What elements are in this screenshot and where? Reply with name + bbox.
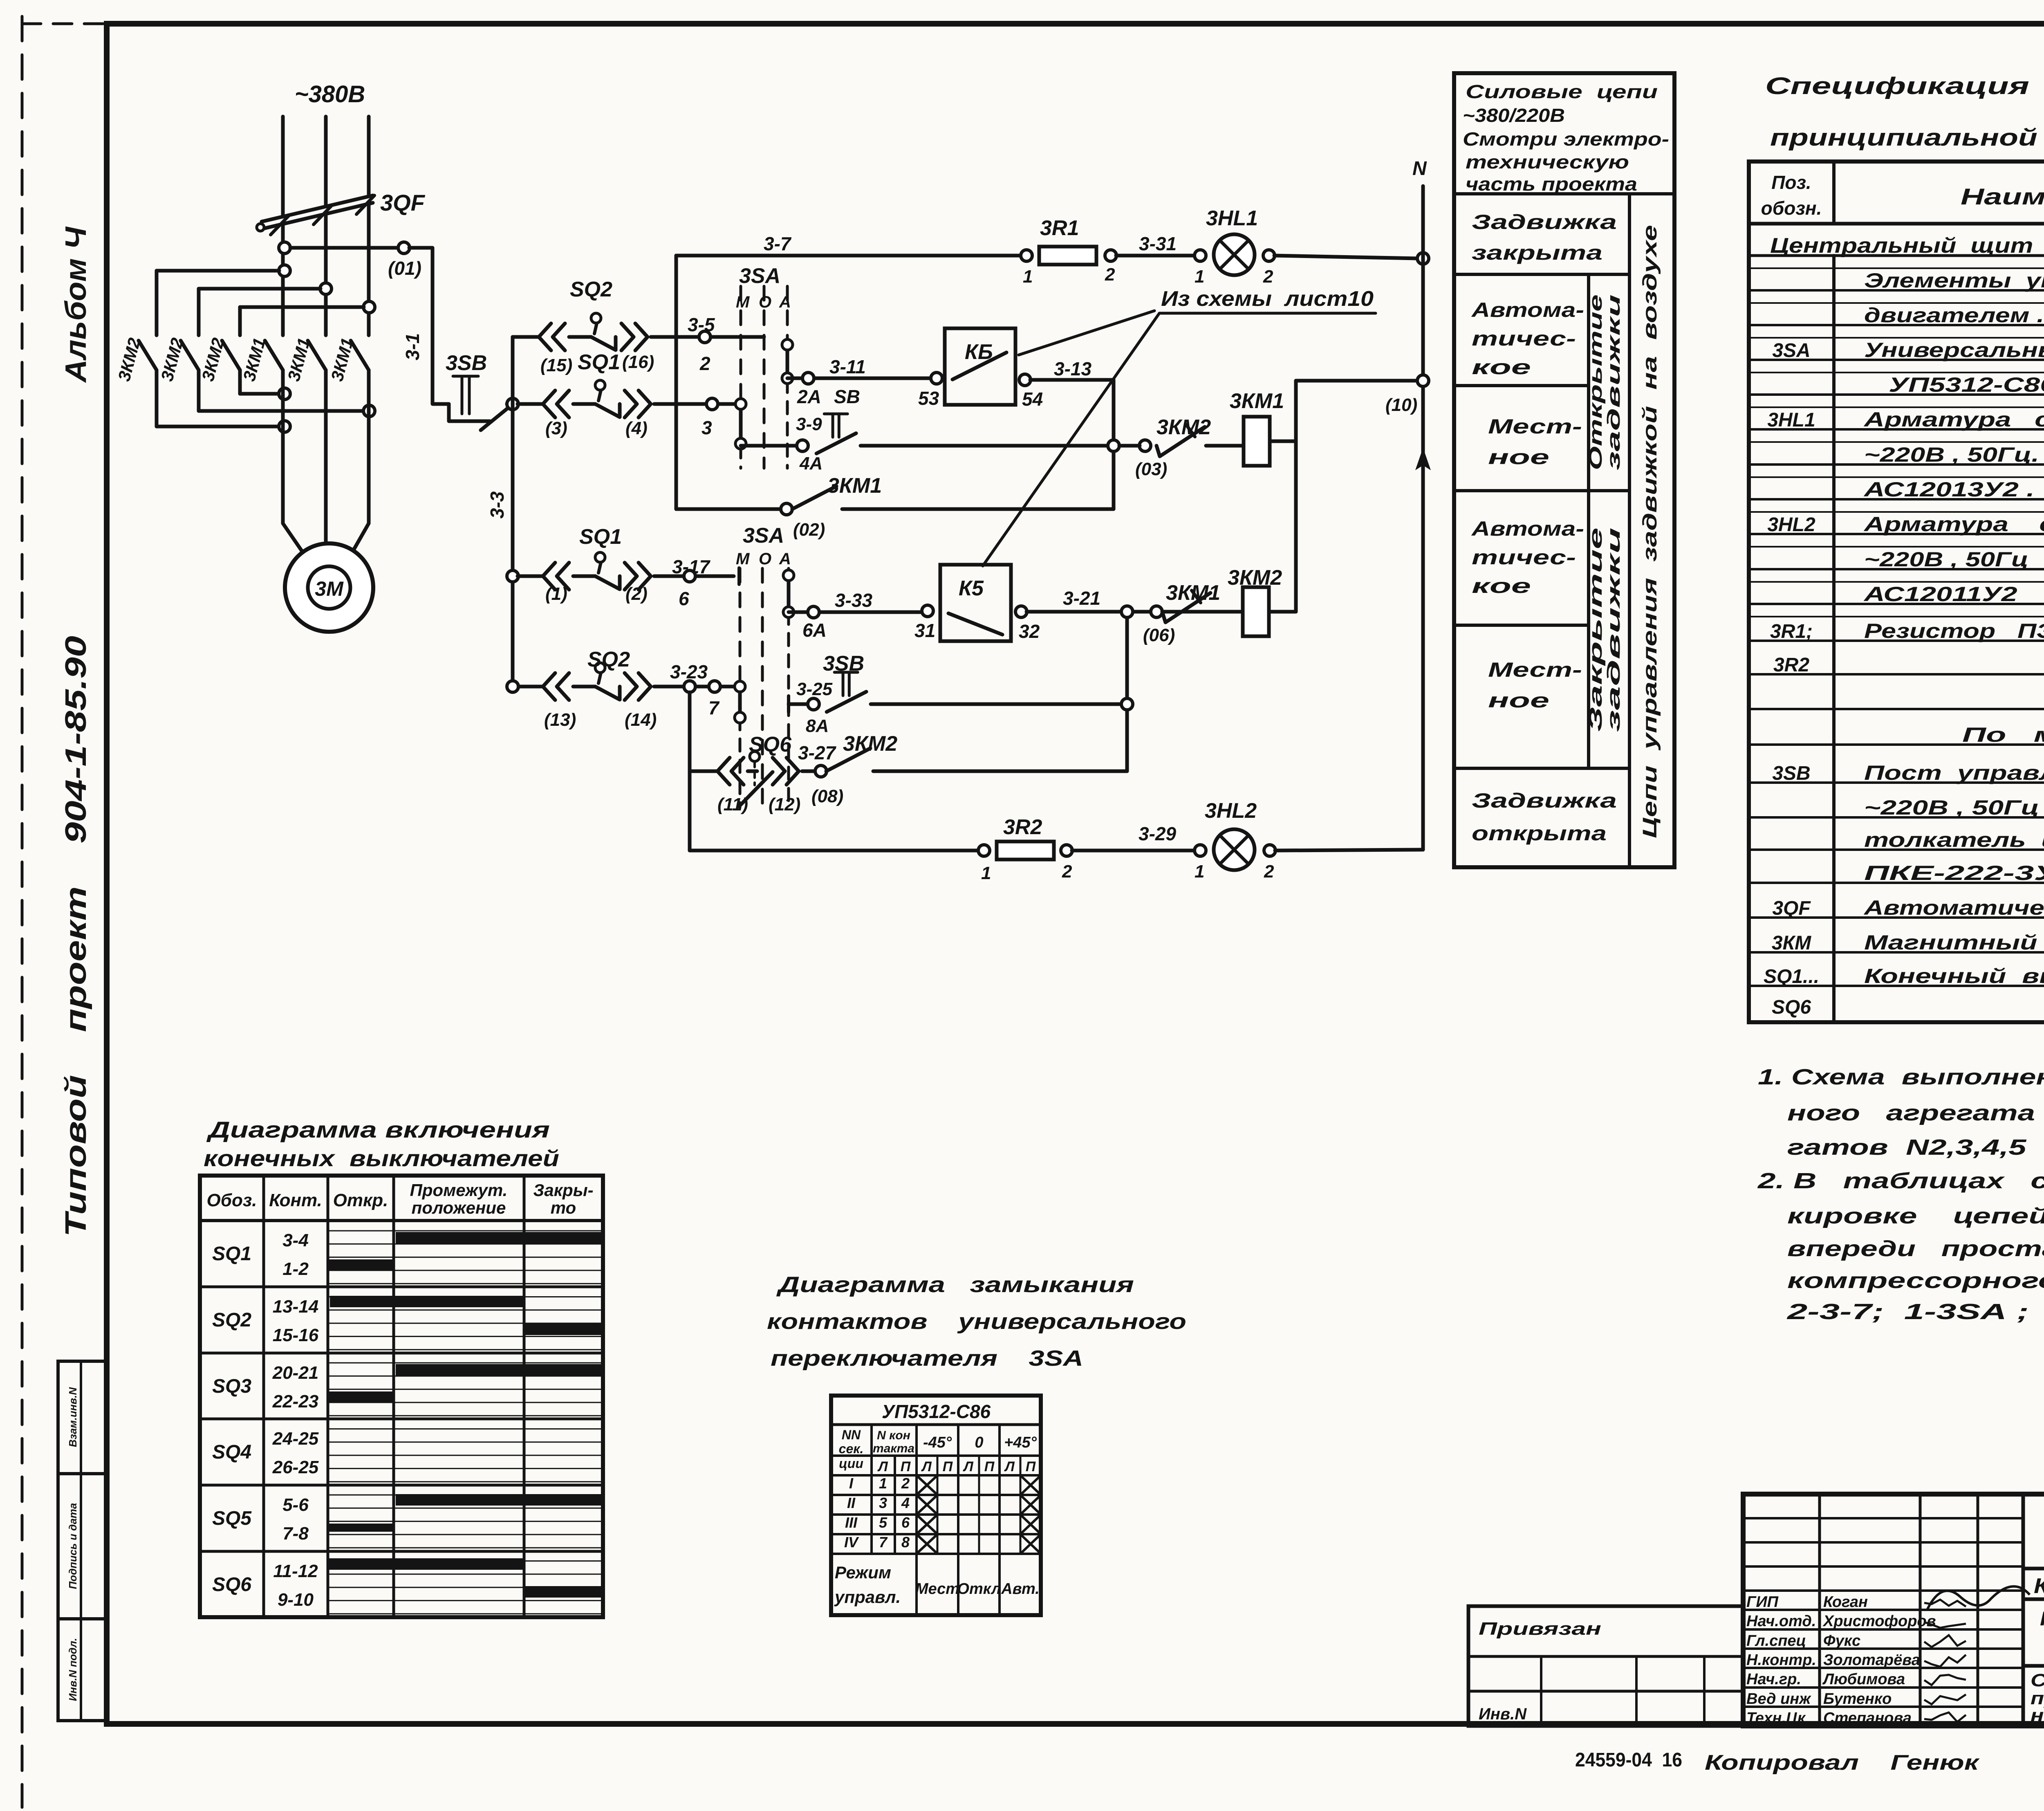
svg-text:3КМ: 3КМ [1772, 932, 1811, 954]
svg-text:часть проекта: часть проекта [1466, 173, 1637, 195]
node 3R1 left [1021, 250, 1032, 261]
node 7 [709, 681, 720, 692]
svg-text:Схема электрическая: Схема электрическая [2031, 1670, 2044, 1690]
svg-text:конечных выключателей: конечных выключателей [204, 1145, 559, 1171]
svg-text:ции: ции [839, 1456, 863, 1471]
svg-text:Закры-: Закры- [533, 1180, 593, 1200]
svg-text:6: 6 [901, 1514, 910, 1531]
legend col line right [1628, 194, 1631, 867]
svg-text:компрессорного агрегата, нап: компрессорного агрегата, например: 1-3-7… [1787, 1268, 2044, 1293]
svg-text:1-2: 1-2 [282, 1259, 309, 1279]
node 01 [398, 242, 410, 254]
svg-text:Подпись и дата: Подпись и дата [67, 1503, 79, 1589]
svg-text:Арматура светосигнальная: Арматура светосигнальная [1863, 513, 2044, 536]
svg-text:ния задвижкой на воздухе.: ния задвижкой на воздухе. [2031, 1706, 2044, 1726]
node 3-9 [797, 440, 808, 451]
pushbutton SB row 3-9 [831, 414, 834, 437]
node 2A [802, 373, 814, 384]
contact 3KM2 aux in SQ6 row [826, 748, 870, 771]
node 32 [1015, 606, 1027, 617]
svg-text:ное: ное [1488, 689, 1549, 712]
svg-text:Вед инж: Вед инж [1746, 1690, 1811, 1708]
svg-text:положение: положение [412, 1198, 506, 1217]
svg-text:3SB: 3SB [1772, 763, 1810, 784]
contactor contact 3KM2-2 [197, 289, 201, 335]
svg-text:3-13: 3-13 [1054, 358, 1091, 379]
wire 02 row right [842, 507, 1114, 511]
svg-text:1: 1 [1023, 267, 1033, 287]
wire KM2-1 bottom to L1 lower [157, 425, 279, 429]
svg-text:такта: такта [873, 1442, 914, 1455]
svg-text:3-31: 3-31 [1139, 233, 1177, 254]
svg-text:IV: IV [844, 1534, 859, 1551]
underline iz shemy [1159, 312, 1376, 315]
arrows left SQ1 3 [543, 390, 555, 417]
svg-text:Элементы управления электро-: Элементы управления электро- [1864, 269, 2044, 292]
arrows left SQ2 15 [539, 323, 551, 350]
svg-text:3М: 3М [315, 577, 344, 600]
svg-text:~380/220В: ~380/220В [1463, 105, 1565, 126]
spec thin double rules [1749, 267, 2044, 269]
svg-text:(03): (03) [1135, 459, 1167, 479]
wire L1 to KM2-1 top [157, 269, 279, 273]
svg-text:Привязан: Привязан [1479, 1619, 1601, 1639]
svg-text:3HL1: 3HL1 [1767, 409, 1815, 431]
svg-text:2: 2 [901, 1475, 910, 1492]
sheet outer edge dashed left [21, 16, 24, 1807]
svg-text:SQ1: SQ1 [578, 350, 620, 374]
node (08) [815, 765, 827, 777]
svg-text:SQ1: SQ1 [579, 525, 622, 549]
3SA contact stub A lower [787, 575, 791, 612]
svg-text:32: 32 [1019, 621, 1040, 642]
svg-text:7: 7 [879, 1534, 888, 1551]
svg-text:переключателя 3SA: переключателя 3SA [771, 1346, 1083, 1371]
svg-text:Смотри электро-: Смотри электро- [1463, 128, 1669, 150]
contactor contact 3KM1-3 [351, 341, 369, 370]
svg-text:двигателем . 3м.: двигателем . 3м. [1864, 304, 2044, 327]
svg-text:обозн.: обозн. [1761, 197, 1822, 219]
wire KM2-3 bottom to L1 [240, 392, 279, 396]
sa X marks [918, 1477, 936, 1493]
selector 3SA lower dashed A [787, 568, 790, 573]
svg-text:М: М [736, 293, 750, 311]
motor feed L2 [324, 370, 328, 543]
N bus [1421, 186, 1425, 850]
svg-text:А: А [779, 550, 791, 568]
wire 3-29 [1072, 849, 1195, 853]
sq diagram table outer [200, 1176, 603, 1617]
arrows right SQ6 12 [773, 758, 785, 785]
svg-text:~220В , 50Гц линза красная: ~220В , 50Гц линза красная [1864, 548, 2044, 571]
svg-text:3R2: 3R2 [1003, 815, 1042, 839]
phase line L1 top [281, 117, 285, 217]
svg-text:3КМ2: 3КМ2 [1156, 415, 1211, 439]
coil 3KM2 [1243, 587, 1269, 636]
contactor contact 3KM2-1 [155, 271, 159, 335]
svg-text:SQ5: SQ5 [212, 1508, 252, 1529]
svg-text:Магнитный пускатель: Магнитный пускатель [1864, 931, 2044, 954]
svg-text:ного агрегата N1, для комп: ного агрегата N1, для компрессорных агре… [1787, 1101, 2044, 1125]
svg-text:П: П [1026, 1459, 1036, 1474]
svg-text:3QF: 3QF [1772, 898, 1811, 919]
staff table columns [1818, 1494, 1821, 1726]
svg-text:3SA: 3SA [743, 524, 784, 548]
svg-text:2. В таблицах соединений: 2. В таблицах соединений щитов в мар- [1757, 1169, 2044, 1193]
svg-text:(2): (2) [625, 584, 648, 604]
svg-text:(02): (02) [793, 520, 825, 540]
svg-text:Нач.гр.: Нач.гр. [1746, 1671, 1801, 1688]
node 2 [699, 331, 710, 343]
svg-text:задвижки: задвижки [1604, 294, 1624, 470]
object cell [2023, 1598, 2044, 1601]
svg-text:1: 1 [981, 863, 991, 883]
legend col line inner [1587, 274, 1590, 768]
node (03) [1139, 440, 1151, 451]
sq diagram row lines [200, 1286, 603, 1288]
3SA contact stub M upper [739, 404, 743, 444]
svg-text:(11): (11) [717, 794, 748, 815]
svg-text:(4): (4) [625, 418, 648, 438]
svg-text:тичес-: тичес- [1472, 546, 1576, 569]
svg-text:SQ6: SQ6 [749, 733, 792, 756]
svg-text:3-25: 3-25 [796, 679, 833, 699]
bus node at 3SB [507, 398, 518, 410]
svg-text:Инв.N подл.: Инв.N подл. [67, 1638, 79, 1701]
node at 1687 [684, 681, 695, 692]
node L1 tap 01 [279, 242, 290, 254]
svg-text:Цепи управления задвижкой н: Цепи управления задвижкой на воздухе [1639, 225, 1661, 838]
svg-text:+45°: +45° [1004, 1434, 1037, 1451]
svg-text:III: III [845, 1514, 858, 1531]
svg-text:ное: ное [1488, 446, 1549, 469]
svg-text:Наименование: Наименование [1961, 184, 2044, 209]
svg-text:6: 6 [679, 588, 689, 609]
svg-text:2: 2 [1263, 267, 1273, 287]
svg-text:31: 31 [914, 620, 935, 641]
svg-text:ПКЕ-222-3У2: ПКЕ-222-3У2 [1864, 862, 2044, 884]
svg-text:Откл: Откл [957, 1580, 1001, 1598]
svg-text:Откр.: Откр. [333, 1190, 388, 1210]
limit switch SQ2 lower [573, 685, 595, 689]
svg-text:3КМ1: 3КМ1 [1230, 389, 1284, 413]
vertical 10-row to coils [1294, 381, 1298, 612]
svg-text:Универсальный переключатель: Универсальный переключатель [1864, 339, 2044, 361]
sa data row lines [831, 1494, 1041, 1496]
svg-text:(10): (10) [1385, 395, 1417, 415]
wire row 3-25 to vertical [871, 702, 1127, 706]
svg-text:N: N [1412, 158, 1427, 180]
node (02) [781, 503, 792, 515]
svg-text:~220В , 50Гц 3з+3р конт: ~220В , 50Гц 3з+3р конт [1864, 796, 2044, 819]
node 3R1 right [1105, 250, 1116, 261]
3SA contact stub A upper [786, 345, 789, 378]
svg-text:техническую: техническую [1466, 151, 1629, 173]
phase L2 below breaker [324, 214, 328, 335]
svg-text:Мест-: Мест- [1488, 658, 1582, 681]
svg-text:(01): (01) [388, 258, 421, 279]
svg-text:3-27: 3-27 [798, 742, 836, 763]
svg-text:УП5312-С86 ТУ16-524.074-75: УП5312-С86 ТУ16-524.074-75 [1889, 373, 2044, 396]
svg-text:Л: Л [1004, 1459, 1015, 1474]
svg-text:управл.: управл. [834, 1587, 901, 1607]
svg-text:3SA: 3SA [739, 264, 780, 288]
wire to N bus bottom [1275, 850, 1423, 851]
svg-text:7: 7 [708, 697, 720, 718]
limit switch SQ1 upper [573, 402, 595, 406]
svg-text:3: 3 [702, 417, 712, 438]
svg-text:3SB: 3SB [446, 351, 487, 375]
wire to node 2 [651, 335, 764, 339]
svg-text:11-12: 11-12 [273, 1561, 318, 1581]
wire row 3-11 [787, 377, 937, 380]
svg-text:АС12013У2 . ТУ16-535.930-76: АС12013У2 . ТУ16-535.930-76 [1863, 478, 2044, 501]
svg-text:7-8: 7-8 [282, 1524, 309, 1544]
arrows left SQ6 11 [717, 758, 730, 785]
svg-text:тичес-: тичес- [1472, 327, 1576, 350]
interlock box KB [945, 328, 1015, 405]
svg-text:УП5312-С86: УП5312-С86 [882, 1401, 991, 1422]
wire 02 row [676, 507, 781, 511]
svg-text:Взам.инв.N: Взам.инв.N [67, 1387, 79, 1447]
selector 3SA upper dashed M [740, 286, 742, 402]
svg-text:3SB: 3SB [823, 652, 864, 675]
pushbutton 3SB main [449, 404, 490, 421]
svg-text:2: 2 [1264, 862, 1274, 882]
node 6A [808, 606, 819, 618]
svg-text:Закрытие: Закрытие [1586, 527, 1606, 732]
wire to node 08 [802, 770, 816, 773]
svg-text:Открытие: Открытие [1586, 294, 1606, 470]
wire drop to SQ6 row [688, 692, 692, 851]
svg-text:(06): (06) [1143, 625, 1175, 645]
svg-text:SB: SB [834, 386, 860, 407]
svg-text:(16): (16) [622, 352, 654, 372]
node 3HL1 right [1263, 250, 1275, 261]
node 3-25 [808, 698, 819, 710]
sheet outer edge dashed top-left [22, 22, 107, 25]
wire 3-21 [1026, 610, 1230, 614]
svg-text:SQ3: SQ3 [212, 1376, 251, 1397]
svg-text:Конт.: Конт. [269, 1190, 322, 1210]
legend row lines [1454, 192, 1674, 195]
svg-text:кировке цепей управления: кировке цепей управления и аппаратов [1787, 1204, 2044, 1228]
arrows right SQ2 14 [625, 673, 637, 700]
svg-text:Спецификация к схеме эл: Спецификация к схеме электрической [1765, 73, 2044, 99]
svg-text:53: 53 [918, 388, 939, 409]
svg-text:8: 8 [901, 1534, 910, 1551]
svg-text:SQ2: SQ2 [587, 648, 630, 671]
spec table outer [1749, 162, 2044, 1022]
limit switch SQ2 upper [569, 335, 591, 339]
arrows right SQ1 2 [625, 563, 637, 590]
svg-text:3-21: 3-21 [1063, 588, 1100, 609]
svg-text:(1): (1) [545, 584, 567, 604]
svg-text:кое: кое [1472, 356, 1531, 379]
svg-text:Степанова: Степанова [1823, 1710, 1912, 1727]
rail 3-7 left vertical [675, 256, 678, 509]
node 3HL2 right [1264, 845, 1275, 856]
svg-text:2: 2 [1062, 862, 1072, 882]
node (06) [1151, 606, 1162, 617]
svg-text:принципиальной управления: принципиальной управления задвижкой [1770, 124, 2044, 151]
svg-text:22-23: 22-23 [272, 1391, 319, 1412]
wire to node 6 [654, 574, 734, 578]
svg-text:3КМ2: 3КМ2 [1228, 566, 1282, 590]
svg-text:15-16: 15-16 [273, 1325, 319, 1345]
svg-text:Промежут.: Промежут. [410, 1180, 508, 1200]
arrows right SQ1 4 [625, 390, 637, 417]
KB blade [953, 352, 1006, 379]
resistor 3R2 [997, 842, 1054, 859]
wire to coil 3KM1 [1206, 444, 1244, 448]
svg-text:2: 2 [1105, 265, 1115, 285]
svg-text:3КМ1: 3КМ1 [827, 474, 882, 498]
svg-text:3КМ2: 3КМ2 [843, 732, 897, 756]
svg-text:Компрессорная станция 5КЦ-160: Компрессорная станция 5КЦ-160А0 [2034, 1574, 2044, 1598]
svg-text:ГИП: ГИП [1746, 1593, 1779, 1611]
contactor contact 3KM1-1 [265, 341, 283, 370]
svg-text:Гл.спец: Гл.спец [1746, 1632, 1806, 1649]
svg-text:3R1;: 3R1; [1770, 621, 1813, 642]
spec col line poz [1832, 256, 1836, 1022]
node L3 to KM2 bank 3 [363, 301, 375, 313]
svg-text:открыта: открыта [1472, 822, 1607, 845]
wire row SQ2 15-16 [513, 335, 538, 339]
interlock box K5 [940, 565, 1011, 641]
wire 3SB to bus [507, 402, 513, 406]
svg-text:Автоматический выключатель: Автоматический выключатель [1863, 896, 2044, 919]
svg-text:Л: Л [877, 1459, 888, 1474]
svg-text:Пост управления кнопочный: Пост управления кнопочный [1864, 761, 2044, 784]
M line end bar [737, 568, 741, 584]
svg-text:закрыта: закрыта [1472, 241, 1602, 264]
breaker 3QF bar [262, 195, 373, 222]
arrows left SQ2 13 [543, 673, 555, 700]
node 54 [1019, 374, 1031, 386]
spec header col lines [1832, 162, 1836, 224]
svg-text:Задвижка: Задвижка [1472, 789, 1617, 812]
svg-text:Альбом Ч: Альбом Ч [60, 226, 92, 383]
node 31 [922, 605, 933, 617]
node on N bus top rail [1417, 253, 1429, 264]
wire row SQ1 3-4 [518, 402, 542, 406]
privyazan block [1468, 1606, 1743, 1726]
svg-text:0: 0 [975, 1434, 983, 1451]
wire L3 to KM2-3 top [240, 305, 364, 309]
svg-text:Л: Л [921, 1459, 932, 1474]
svg-text:24-25: 24-25 [272, 1429, 319, 1449]
right vertical to coil row [1125, 612, 1129, 771]
K5 blade [948, 613, 1002, 635]
wire row 3-25 [789, 702, 808, 706]
svg-text:1: 1 [1195, 267, 1204, 287]
svg-text:Конечный выключатель: Конечный выключатель [1864, 965, 2044, 987]
svg-text:3SA: 3SA [1772, 340, 1810, 361]
svg-text:2: 2 [699, 353, 710, 374]
svg-text:3-29: 3-29 [1139, 823, 1176, 844]
svg-text:О: О [759, 293, 771, 311]
limit switch SQ1 lower [573, 574, 595, 578]
svg-text:сек.: сек. [839, 1441, 864, 1456]
junction right vertical [1121, 606, 1133, 617]
svg-text:К5: К5 [959, 577, 984, 600]
junction 03 branch [1108, 440, 1119, 451]
wire row SQ2 13-14 [518, 685, 542, 689]
svg-text:3HL1: 3HL1 [1206, 206, 1258, 230]
svg-text:(14): (14) [625, 710, 657, 730]
bus vertical 3-3 [511, 337, 515, 687]
svg-text:Фукс: Фукс [1823, 1632, 1860, 1649]
svg-text:SQ1...: SQ1... [1764, 966, 1819, 987]
left margin stamp boxes [58, 1361, 107, 1721]
svg-text:~380В: ~380В [295, 81, 365, 108]
sa table outer [831, 1396, 1041, 1615]
svg-text:Автома-: Автома- [1471, 517, 1584, 540]
svg-text:впереди проставлен индекс: впереди проставлен индекс по номеру [1787, 1237, 2044, 1261]
wire L2 to KM2-2 top [199, 287, 320, 291]
svg-text:контактов универсального: контактов универсального [767, 1309, 1186, 1334]
svg-text:(3): (3) [545, 418, 567, 438]
svg-text:(13): (13) [544, 710, 576, 730]
wire to coil 3KM2 [1216, 610, 1243, 614]
A line end bar row 3-25 [787, 696, 790, 712]
breaker 3QF blades [271, 216, 289, 235]
wire coil 3KM1 to vertical [1270, 440, 1296, 443]
svg-text:SQ4: SQ4 [212, 1441, 251, 1463]
svg-text:О: О [759, 550, 771, 568]
svg-text:П: П [943, 1459, 953, 1474]
svg-text:26-25: 26-25 [272, 1457, 319, 1477]
svg-text:4А: 4А [799, 453, 823, 474]
arrows left SQ1 1 [543, 563, 555, 590]
svg-text:3R1: 3R1 [1040, 216, 1079, 240]
3SA contact stub M lower [738, 687, 742, 718]
node 10 on N bus [1417, 375, 1429, 386]
svg-text:Нач.отд.: Нач.отд. [1746, 1613, 1816, 1630]
wire row 3-9 [741, 444, 797, 448]
svg-text:3-7: 3-7 [764, 233, 792, 254]
svg-text:3R2: 3R2 [1773, 654, 1809, 676]
svg-text:6А: 6А [802, 619, 827, 641]
node 3HL2 left [1195, 845, 1206, 856]
svg-text:Инв.N: Инв.N [1479, 1705, 1527, 1723]
station cell [2023, 1664, 2044, 1668]
node 53 [931, 373, 942, 384]
phase line L3 top [367, 117, 371, 196]
svg-text:SQ6: SQ6 [212, 1574, 251, 1596]
svg-text:Диаграмма включения: Диаграмма включения [206, 1117, 550, 1142]
svg-text:NN: NN [842, 1427, 861, 1442]
svg-text:1. Схема выполнена для зад: 1. Схема выполнена для задвижки компресс… [1758, 1065, 2044, 1089]
svg-text:Силовые цепи: Силовые цепи [1466, 81, 1658, 102]
motor 3M inner circle [308, 566, 350, 609]
lamp 3HL2 [1214, 829, 1255, 870]
svg-text:Поз.: Поз. [1771, 172, 1811, 193]
svg-text:АС12011У2 ТУ16-535.930-76: АС12011У2 ТУ16-535.930-76 [1863, 583, 2044, 606]
svg-text:Золотарёва: Золотарёва [1823, 1652, 1920, 1669]
svg-text:SQ2: SQ2 [570, 278, 612, 301]
phase L3 below breaker [367, 204, 371, 335]
svg-text:SQ2: SQ2 [212, 1309, 251, 1331]
svg-text:толкатель цилиндрический: толкатель цилиндрический [1864, 828, 2044, 851]
svg-text:П: П [984, 1459, 995, 1474]
svg-text:54: 54 [1022, 388, 1043, 410]
svg-text:SQ6: SQ6 [1772, 996, 1811, 1018]
svg-text:24559-04 16: 24559-04 16 [1575, 1749, 1682, 1771]
node 3R2 left [978, 845, 990, 856]
svg-text:3-1: 3-1 [402, 333, 423, 360]
